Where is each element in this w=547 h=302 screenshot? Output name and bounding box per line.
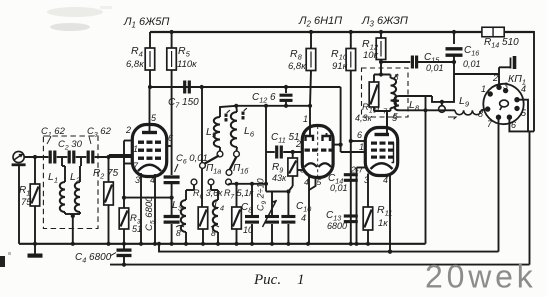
socket pins <box>488 91 493 96</box>
wire C3 to tube grid <box>95 156 133 158</box>
wire pin2 lead <box>498 84 500 87</box>
dashed box oscillator coil unit <box>362 68 409 117</box>
wire L7 to V3 anode <box>386 111 388 128</box>
switch P1a <box>201 87 203 163</box>
svg-text:2: 2 <box>492 73 498 83</box>
svg-text:6,8к: 6,8к <box>126 59 144 70</box>
dashed box input circuit <box>43 136 98 229</box>
svg-text:5: 5 <box>393 111 398 121</box>
wire coil commons to ground <box>64 212 66 214</box>
tube V2 pin 6 lead <box>326 133 328 136</box>
capacitor C15 <box>411 56 414 69</box>
svg-text:1: 1 <box>359 142 364 152</box>
svg-text:0,01: 0,01 <box>330 183 348 193</box>
svg-text:6: 6 <box>511 120 516 130</box>
wire C9 top <box>265 152 267 192</box>
tube V2 pin 3 stub <box>297 169 302 171</box>
inductor L7 <box>390 75 392 79</box>
wire pin7 heater <box>498 117 500 251</box>
svg-text:C7 150: C7 150 <box>168 97 199 110</box>
socket key <box>500 100 509 107</box>
wire antenna to C1 <box>24 156 48 158</box>
ground symbol <box>34 244 36 254</box>
wire pin6 down <box>509 117 528 131</box>
svg-text:6: 6 <box>168 133 173 143</box>
switch P1b <box>230 157 237 171</box>
tube V1 pin 5 <box>149 87 151 125</box>
svg-text:75: 75 <box>21 197 32 208</box>
wire R13 L7 tops <box>374 74 391 76</box>
resistor R7 <box>236 184 238 207</box>
tube V2 anodes <box>306 136 314 141</box>
wire C7 to C12 node <box>191 86 341 88</box>
svg-text:8: 8 <box>176 228 181 238</box>
inductor L6 <box>235 106 238 112</box>
svg-text:1: 1 <box>133 144 138 154</box>
wire osc node to V2 anode and R8 <box>286 105 310 107</box>
wire B+ top rail <box>150 31 534 33</box>
wire grid line to V3 pin 1 <box>340 87 342 152</box>
resistor R1 <box>34 157 36 184</box>
svg-text:C5 6800: C5 6800 <box>144 196 157 231</box>
resistor R14 <box>481 31 483 33</box>
svg-text:2-7: 2-7 <box>350 165 364 175</box>
tube V3 pins 2-7 stub <box>357 167 366 169</box>
capacitor C11 <box>266 151 275 153</box>
svg-text:43к: 43к <box>272 173 287 183</box>
tube V1 pin 7 <box>124 163 133 165</box>
wire R10 to V3 pin6 and C14 C13 <box>350 71 352 244</box>
tube V1 cathode <box>138 165 161 171</box>
inductor L3 <box>185 196 187 200</box>
svg-text:C3 62: C3 62 <box>87 126 112 139</box>
wire R8 <box>309 30 313 34</box>
wire C15 to C16 node <box>417 61 454 63</box>
capacitor C10 <box>287 192 289 216</box>
svg-text:6,8к: 6,8к <box>288 61 306 72</box>
svg-text:4: 4 <box>304 177 309 187</box>
svg-text:91к: 91к <box>332 61 348 72</box>
svg-text:0,01: 0,01 <box>426 63 444 73</box>
tube V1 envelope <box>132 125 166 177</box>
svg-text:3: 3 <box>503 81 508 91</box>
inductor L5 <box>214 117 220 147</box>
resistor R12 <box>379 30 383 34</box>
wire to socket pin 2 <box>454 73 499 75</box>
svg-text:1: 1 <box>303 114 308 124</box>
tube V1 pin 2 <box>124 140 133 142</box>
svg-text:Рис.: Рис. <box>253 272 281 288</box>
svg-text:1к: 1к <box>378 218 388 229</box>
capacitor C4 <box>123 244 125 249</box>
wire antenna down to ground bus <box>18 166 20 244</box>
tube V3 cathode <box>371 163 393 169</box>
inductor L2 <box>80 157 82 166</box>
svg-text:20wek: 20wek <box>425 259 537 295</box>
resistor R3 <box>119 208 129 229</box>
svg-text:Л3 6ЖЗП: Л3 6ЖЗП <box>361 15 408 29</box>
capacitor C12 <box>285 87 287 93</box>
svg-text:1: 1 <box>481 84 486 94</box>
svg-text:C4 6800: C4 6800 <box>75 252 112 265</box>
resistor R5 <box>170 30 174 34</box>
tube V2 envelope <box>302 126 333 178</box>
capacitor C8 <box>251 184 253 215</box>
capacitor C16 <box>452 30 456 34</box>
tube V2 grids <box>305 149 310 152</box>
inductor L4 <box>213 200 218 232</box>
svg-text:110к: 110к <box>177 59 197 70</box>
svg-text:4: 4 <box>301 213 306 223</box>
svg-text:3: 3 <box>364 175 369 185</box>
tube V1 pins 3 4 <box>140 173 142 244</box>
wire C11 branch <box>265 106 267 152</box>
capacitor stub at socket <box>498 67 500 74</box>
svg-text:5: 5 <box>317 177 322 187</box>
wire pins 2-7 tie <box>123 141 125 164</box>
tube V1 pin 6 <box>167 145 172 147</box>
antenna jack <box>13 151 24 162</box>
capacitor C14 <box>344 173 358 176</box>
wire V3 pin4 to heater <box>388 250 392 254</box>
capacitor C5 <box>164 215 180 218</box>
tube V3 anode <box>375 133 390 136</box>
svg-text:C2 30: C2 30 <box>58 139 83 152</box>
jack symbol <box>441 102 443 106</box>
wire anode node of L1 <box>150 86 203 88</box>
tube V1 grids <box>138 141 144 144</box>
tube V3 pin 3 <box>367 174 369 208</box>
svg-text:8: 8 <box>211 228 216 238</box>
resistor R9 <box>288 158 298 176</box>
wire step to L8 <box>432 74 454 102</box>
wire cathode node <box>124 197 172 199</box>
capacitor C6 <box>171 146 173 175</box>
tube V1 anode <box>142 131 157 134</box>
svg-text:0,01: 0,01 <box>463 59 481 69</box>
svg-text:51: 51 <box>132 224 142 234</box>
svg-text:3: 3 <box>135 175 140 185</box>
resistor R4 <box>149 32 151 48</box>
resistor R13 <box>373 75 375 83</box>
svg-text:10к: 10к <box>363 50 379 61</box>
inductor L1 <box>61 157 63 166</box>
wire L5 top <box>220 106 286 117</box>
svg-text:R14 510: R14 510 <box>484 37 519 50</box>
wire L4 top <box>210 185 212 191</box>
smudge <box>47 7 103 17</box>
svg-text:4: 4 <box>150 175 155 185</box>
tube V2 cathodes <box>305 163 318 167</box>
L7 core mark <box>393 74 398 79</box>
svg-text:Л2 6Н1П: Л2 6Н1П <box>298 15 342 29</box>
capacitor C13 <box>344 214 358 217</box>
tube V3 pin 4 heater lead <box>389 175 391 252</box>
tube V2 pin 2 <box>301 151 304 153</box>
tube V2 pin 1 anode lead <box>309 106 311 136</box>
svg-text:Л1 6Ж5П: Л1 6Ж5П <box>123 16 169 30</box>
svg-text:1: 1 <box>297 272 305 288</box>
svg-text:4: 4 <box>521 84 526 94</box>
svg-text:6: 6 <box>357 130 362 140</box>
tube V1 pin 1 <box>109 154 133 156</box>
wire heater line 2 <box>110 264 530 266</box>
tube V3 envelope <box>365 128 397 176</box>
svg-text:C1 62: C1 62 <box>41 126 66 139</box>
svg-text:R2 75: R2 75 <box>93 168 119 181</box>
wire ground bus <box>19 243 426 245</box>
wire rail right end down <box>504 32 534 131</box>
wire P1b to C8 R7 <box>228 183 230 186</box>
wire R5 to screen grid <box>171 70 173 146</box>
resistor R11 <box>363 207 373 230</box>
svg-text:4: 4 <box>383 175 388 185</box>
wire L3 tap to contact <box>193 185 195 191</box>
svg-text:10: 10 <box>243 225 253 235</box>
capacitor C1 <box>49 151 52 164</box>
svg-text:4,3к: 4,3к <box>355 113 373 123</box>
resistor R2 <box>108 157 110 182</box>
socket KP1 body <box>483 84 523 124</box>
wire heater line 1 <box>159 244 499 252</box>
capacitor C7 <box>183 81 186 94</box>
tube V3 pin 6 stub <box>351 140 366 142</box>
edge mark <box>0 256 5 267</box>
resistor R6 <box>201 168 203 207</box>
svg-text:2: 2 <box>125 125 131 135</box>
wire heater right vertical <box>529 131 531 264</box>
tube V2 pins 4 5 <box>308 177 310 244</box>
capacitor C3 <box>76 156 87 158</box>
svg-text:6800: 6800 <box>327 221 347 231</box>
tube V3 pin 5 lead <box>386 113 388 128</box>
svg-text:2: 2 <box>295 139 301 149</box>
inductor L8 <box>399 95 432 97</box>
tube V3 grids <box>371 142 377 145</box>
wire L8 right to ground bus <box>425 96 427 244</box>
capacitor C9 trimmer <box>271 192 273 216</box>
svg-text:8: 8 <box>394 73 399 82</box>
inductor L9 <box>423 108 427 112</box>
capacitor C2 <box>57 156 68 158</box>
tube V3 g3 tie <box>390 144 394 163</box>
wire R10 <box>349 30 353 34</box>
wire C15 feed <box>381 61 410 63</box>
wire pin4 bracket <box>517 100 534 132</box>
